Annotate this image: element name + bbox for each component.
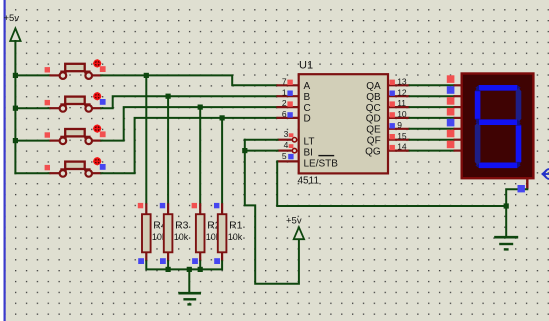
svg-text:R1: R1 (229, 220, 243, 232)
wire: row4 bus to SW4 (15, 172, 49, 174)
sheet border (blue) (4, 0, 6, 321)
logic marker at U1 pin 12 (390, 91, 395, 96)
junction: node D / R1 (220, 115, 225, 120)
wire: LT pin (245, 139, 278, 141)
wire: LE/STB to ground net (277, 161, 506, 206)
svg-text:C: C (304, 103, 311, 114)
wire: SW2 to U1 pin B (101, 96, 276, 108)
wire: QB to display (410, 95, 454, 97)
display pin QE stub (454, 128, 462, 130)
logic marker at U1 pin 10 (390, 112, 395, 117)
svg-text:+5v: +5v (286, 215, 302, 226)
7-segment display body (462, 74, 534, 179)
junction: LE net / ground 2 (504, 203, 509, 208)
segment g middle (lit) (476, 119, 521, 125)
wire: LT/BI to +5V rail 2 (245, 140, 299, 284)
junction: bus/ground stem (187, 267, 192, 272)
svg-text:14: 14 (397, 142, 407, 152)
svg-text:13: 13 (397, 76, 407, 86)
junction: bus/R3 (166, 267, 171, 272)
logic marker at display pin QD (447, 108, 455, 116)
U1 pin 11 (QC) (388, 106, 410, 108)
svg-text:LT: LT (304, 137, 315, 148)
svg-text:QD: QD (366, 114, 381, 125)
svg-text:10: 10 (397, 109, 407, 119)
wire: row3 bus to SW3 (15, 140, 49, 142)
svg-text:10k: 10k (174, 232, 189, 242)
wire: node B down to R3 (167, 96, 169, 203)
logic marker at display pin QE (447, 119, 455, 127)
logic marker at U1 pin 11 (390, 101, 395, 106)
segment a top (lit) (476, 85, 521, 91)
junction: node A / R4 (144, 73, 149, 78)
junction: bus/row1 (13, 73, 18, 78)
display common pin stub (526, 178, 528, 189)
logic marker at display pin QB (447, 86, 455, 94)
svg-text:R3: R3 (175, 220, 189, 232)
U1 pin 9 (QE) (388, 128, 410, 130)
svg-text:QB: QB (366, 92, 381, 103)
wire: QD to display (410, 117, 454, 119)
logic marker (red) left of SW3 (45, 132, 50, 137)
push button SW2 (50, 97, 102, 112)
resistor R1 (218, 203, 227, 261)
U1 pin 1 (B) (276, 95, 298, 97)
svg-text:A: A (304, 81, 311, 92)
U1 pin 6 (D) (276, 117, 298, 119)
U1 pin 5 (LE/STB) (277, 160, 299, 162)
junction: bus/row2 (13, 106, 18, 111)
svg-text:LE/STB: LE/STB (304, 158, 339, 169)
resistor R4 (142, 203, 151, 261)
logic marker (blue) at R4 bottom (138, 258, 144, 264)
logic marker (blue) at R1 bottom (214, 258, 220, 264)
svg-text:2: 2 (282, 98, 287, 108)
U1 pin 14 (QG) (388, 150, 410, 152)
svg-text:4: 4 (284, 140, 289, 150)
segment e bottom-left (off) (475, 122, 481, 165)
U1 pin 10 (QD) (388, 117, 410, 119)
push button SW3 (50, 129, 102, 144)
wire: stem to ground 1 (188, 269, 190, 292)
svg-text:BI: BI (304, 147, 313, 158)
wire: R3 bottom to bus (167, 261, 169, 269)
wire: BI pin (245, 150, 278, 152)
logic marker right of SW3 (100, 131, 106, 137)
power terminal +5V (left) (10, 28, 20, 41)
logic marker (blue) at R2 bottom (192, 258, 198, 264)
wire: display common to ground 2 (506, 189, 527, 236)
svg-text:15: 15 (397, 131, 407, 141)
segment f top-left (lit) (475, 88, 481, 122)
logic marker at U1 pin 13 (390, 80, 395, 85)
wire: QC to display (410, 106, 454, 108)
ground symbol (below display) (494, 237, 518, 249)
logic marker (blue) at display common pin (518, 185, 525, 192)
logic marker at U1 pin 1 (287, 91, 292, 96)
logic marker (blue) at R3 top (160, 203, 165, 208)
svg-text:4511: 4511 (298, 176, 320, 187)
resistor R2 (196, 203, 205, 261)
actuator of SW2 (93, 92, 102, 101)
wire: node C down to R2 (199, 107, 201, 203)
svg-text:3: 3 (284, 129, 289, 139)
wire: QA to display (410, 84, 454, 86)
logic marker (red) at R4 top (138, 203, 143, 208)
resistor R3 (164, 203, 173, 261)
logic marker at U1 pin 14 (390, 145, 395, 150)
logic marker at U1 pin 9 (390, 123, 395, 128)
logic marker (blue) at R3 bottom (160, 258, 166, 264)
overline on STB (318, 155, 334, 156)
wire: +5V bus vertical (14, 41, 16, 173)
logic marker at display pin QC (447, 97, 455, 105)
svg-text:9: 9 (397, 120, 402, 130)
logic marker (blue) at R1 top (214, 203, 219, 208)
logic marker at U1 pin 6 (287, 112, 292, 117)
logic marker at U1 pin 2 (287, 101, 292, 106)
push button SW1 (50, 64, 102, 79)
4511 BCD decoder U1 body (299, 74, 388, 173)
wire: SW1 to U1 pin A (101, 75, 276, 85)
svg-text:5: 5 (282, 151, 287, 161)
blue origin marker (right edge) (542, 169, 549, 179)
actuator of SW1 (93, 59, 102, 68)
logic marker (red) at R2 top (192, 203, 197, 208)
logic marker at U1 pin 4 (289, 144, 294, 148)
logic marker right of SW4 (100, 164, 106, 170)
wire: R2 bottom to bus (199, 261, 201, 269)
U1 pin 4 (BI) with inversion bubble (278, 148, 297, 152)
junction: node B / R3 (166, 94, 171, 99)
push button SW4 (50, 162, 102, 177)
logic marker (red) left of SW1 (45, 67, 50, 72)
U1 pin 7 (A) (276, 84, 298, 86)
wire: row2 bus to SW2 (15, 107, 49, 109)
logic marker (red) left of SW4 (45, 165, 50, 170)
svg-text:QE: QE (366, 125, 381, 136)
wire: row1 bus to SW1 (15, 74, 49, 76)
svg-text:QA: QA (366, 81, 381, 92)
wire: QG to display (410, 150, 454, 152)
wire: node D down to R1 (221, 118, 223, 203)
svg-text:10k: 10k (228, 232, 243, 242)
display pin QF stub (454, 139, 462, 141)
logic marker right of SW1 (100, 66, 106, 72)
logic marker right of SW2 (100, 99, 106, 105)
svg-text:QC: QC (366, 103, 381, 114)
actuator of SW3 (93, 124, 102, 133)
logic marker at U1 pin 15 (390, 134, 395, 139)
segment c bottom-right (lit) (516, 122, 522, 165)
junction: node C / R2 (198, 105, 203, 110)
display pin QC stub (454, 106, 462, 108)
U1 pin 13 (QA) (388, 84, 410, 86)
U1 pin 2 (C) (276, 106, 298, 108)
logic marker at U1 pin 5 (288, 154, 293, 159)
svg-text:1: 1 (282, 87, 287, 97)
U1 pin 12 (QB) (388, 95, 410, 97)
wire: SW3 to U1 pin C (101, 107, 276, 141)
svg-text:11: 11 (397, 98, 406, 108)
display pin QG stub (454, 150, 462, 152)
wire: node A down to R4 (145, 75, 147, 203)
svg-text:7: 7 (282, 76, 287, 86)
display pin QB stub (454, 95, 462, 97)
logic marker at display pin QA (447, 75, 455, 83)
svg-text:B: B (304, 92, 311, 103)
segment b top-right (off) (516, 88, 522, 122)
logic marker at U1 pin 7 (287, 80, 292, 85)
svg-text:+5v: +5v (4, 13, 20, 24)
svg-text:D: D (304, 114, 311, 125)
svg-text:QF: QF (367, 136, 381, 147)
logic marker at U1 pin 3 (289, 133, 294, 137)
wire: resistor ground bus (146, 261, 222, 269)
wire: QF to display (410, 139, 454, 141)
junction: bus/R2 (198, 267, 203, 272)
logic marker at display pin QF (447, 130, 455, 138)
wire: QE to display (410, 128, 454, 130)
svg-text:12: 12 (397, 87, 407, 97)
segment d bottom (lit) (476, 163, 521, 169)
svg-text:QG: QG (365, 146, 381, 157)
logic marker (red) left of SW2 (45, 100, 50, 105)
logic marker at display pin QG (447, 141, 455, 149)
power terminal +5V (second) (294, 227, 304, 239)
svg-text:6: 6 (282, 109, 287, 119)
junction: bus/row3 (13, 138, 18, 143)
junction: LT/BI tie (242, 148, 247, 153)
actuator of SW4 (93, 157, 102, 166)
svg-text:U1: U1 (299, 60, 313, 72)
wire: SW4 to U1 pin D (101, 118, 276, 173)
display pin QA stub (454, 84, 462, 86)
U1 pin 15 (QF) (388, 139, 410, 141)
ground symbol (below resistors) (178, 293, 201, 304)
U1 pin 3 (LT) with inversion bubble (278, 138, 297, 142)
display pin QD stub (454, 117, 462, 119)
